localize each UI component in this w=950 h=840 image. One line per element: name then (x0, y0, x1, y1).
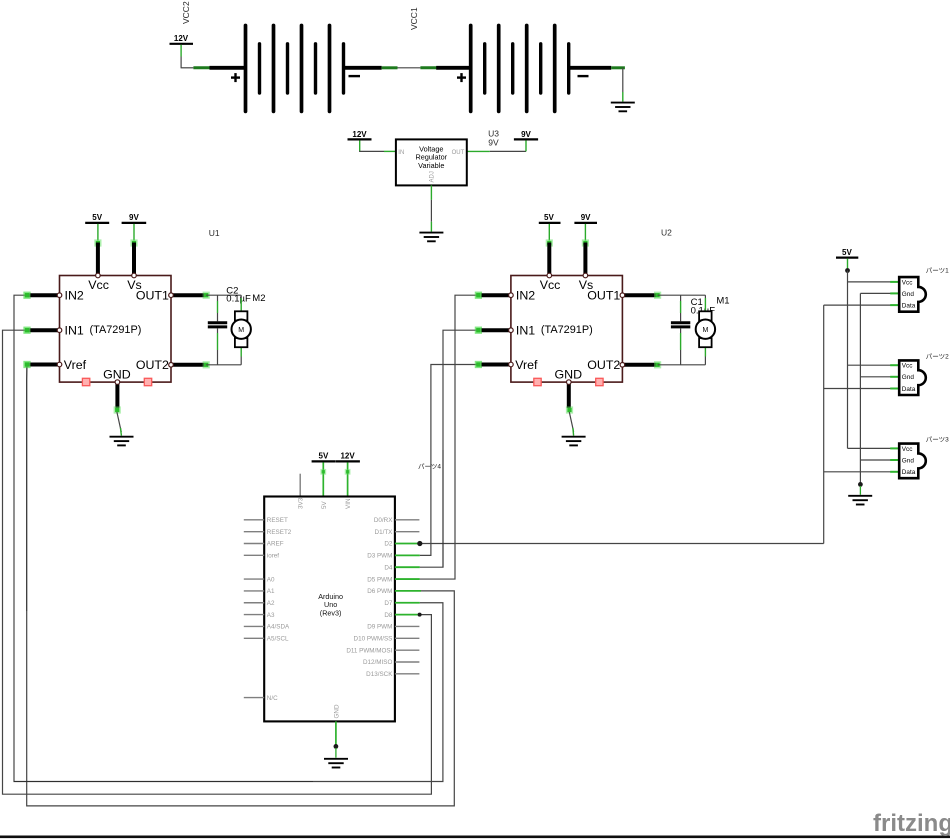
svg-text:Vcc: Vcc (902, 446, 913, 453)
junction dot (845, 268, 850, 273)
svg-text:Data: Data (902, 303, 916, 310)
pin stubs (890, 448, 899, 471)
svg-text:VIN: VIN (345, 498, 352, 509)
battery plates VCC2 (246, 26, 344, 112)
svg-text:U2: U2 (661, 228, 672, 238)
battery VCC1 (409, 7, 635, 111)
svg-text:A5/SCL: A5/SCL (267, 636, 289, 643)
svg-text:OUT: OUT (452, 150, 465, 156)
svg-text:IN2: IN2 (516, 289, 535, 303)
wire to parts1 Gnd (860, 292, 890, 294)
wire OUT2 bottom (658, 364, 706, 366)
pin circle Vs (132, 273, 137, 278)
wire OUT to 9V (467, 150, 490, 152)
svg-text:AREF: AREF (267, 541, 284, 548)
pin circle IN2 (509, 293, 514, 298)
wire + terminal (436, 66, 472, 70)
svg-text:Vref: Vref (64, 358, 87, 372)
wire U2 IN2 to D5 (420, 295, 479, 579)
wire 12V to IN (359, 140, 361, 147)
bottom page border (0, 836, 950, 839)
red square bus pin (534, 378, 541, 385)
svg-text:D3 PWM: D3 PWM (367, 553, 392, 560)
junction dot D2 (417, 541, 422, 546)
wire 9V to Vs (133, 224, 135, 241)
red square bus pin (144, 378, 151, 385)
pin circle Vref (509, 362, 514, 367)
svg-text:D13/SCK: D13/SCK (366, 671, 393, 678)
pin stub IN2 (23, 292, 30, 299)
pin circle OUT2 (169, 363, 174, 368)
svg-text:D11 PWM/MOSI: D11 PWM/MOSI (346, 647, 392, 654)
motor M2 (232, 295, 251, 365)
right gray pin stubs (395, 520, 420, 674)
svg-text:Variable: Variable (418, 161, 444, 170)
svg-text:9V: 9V (129, 213, 139, 222)
svg-text:Vcc: Vcc (902, 279, 913, 286)
svg-text:9V: 9V (581, 213, 591, 222)
svg-text:D6 PWM: D6 PWM (367, 588, 392, 595)
svg-text:5V: 5V (544, 213, 554, 222)
svg-text:ioref: ioref (267, 553, 279, 560)
wire 5V to Vcc (97, 224, 99, 241)
pin circle IN2 (57, 293, 62, 298)
svg-text:Vcc: Vcc (902, 363, 913, 370)
wire U1 IN1 to D8 (3, 330, 432, 794)
pin stub GND (115, 383, 119, 408)
junction dot gnd (858, 482, 863, 487)
capacitor C1 (671, 295, 690, 365)
wire overlap darkening D4 (442, 450, 444, 567)
wire overlap darkening bottom (14, 781, 313, 783)
wire Data bus vertical (823, 305, 825, 543)
wire 5V bus vertical (847, 271, 849, 449)
junction dot (334, 744, 339, 749)
svg-text:M1: M1 (716, 295, 729, 306)
svg-text:A4/SDA: A4/SDA (267, 624, 290, 631)
pin circle Vcc (96, 273, 101, 278)
pin stub IN1 (23, 327, 30, 334)
pin stub IN1 (475, 327, 482, 334)
svg-text:RESET2: RESET2 (267, 529, 292, 536)
body (899, 360, 926, 395)
svg-text:GND: GND (333, 704, 340, 718)
svg-text:5V: 5V (319, 452, 329, 461)
svg-text:パーツ4: パーツ4 (418, 462, 441, 470)
pin circle OUT1 (620, 293, 625, 298)
regulator box U3 (396, 139, 467, 185)
svg-text:パーツ1: パーツ1 (926, 267, 949, 275)
svg-text:M: M (702, 327, 708, 334)
wire to parts3 Gnd (860, 459, 890, 461)
svg-text:12V: 12V (340, 452, 355, 461)
svg-text:3V3: 3V3 (298, 497, 305, 509)
svg-text:0.1µF: 0.1µF (226, 294, 251, 305)
svg-text:12V: 12V (174, 34, 189, 43)
ground (110, 437, 134, 446)
pin stub Vs (130, 239, 137, 246)
wire green segment (193, 66, 210, 69)
wire 5V to Vcc (548, 224, 550, 241)
power flag 5V (right) (824, 248, 891, 544)
svg-text:D0/RX: D0/RX (374, 517, 393, 524)
body (899, 444, 926, 479)
voltage regulator U3 (348, 129, 539, 242)
plus sign (231, 73, 240, 82)
ground (611, 103, 635, 112)
svg-text:N/C: N/C (267, 695, 278, 702)
motor M1 (696, 295, 715, 365)
wire green segment (420, 66, 437, 69)
pin stub Vcc (546, 239, 553, 246)
svg-text:fritzing: fritzing (873, 810, 950, 837)
wire VIN pin (347, 462, 349, 496)
svg-text:9V: 9V (488, 138, 499, 148)
wire between batteries (398, 67, 421, 69)
wire - terminal (570, 66, 611, 70)
pin stub IN2 (475, 292, 482, 299)
ground (324, 759, 348, 768)
wire D2 to parts Data bus (420, 543, 824, 545)
wire U1 IN2 to D7 (14, 295, 443, 781)
ground (848, 496, 872, 505)
svg-text:Vref: Vref (515, 358, 538, 372)
svg-text:RESET: RESET (267, 517, 288, 524)
wire OUT1 to C2/M2 (206, 294, 241, 296)
plus sign (457, 73, 466, 82)
pin circle Vs (583, 273, 588, 278)
svg-text:IN1: IN1 (65, 324, 84, 338)
svg-text:(TA7291P): (TA7291P) (541, 324, 593, 336)
minus sign (578, 75, 589, 77)
wire to parts3 Vcc (848, 447, 891, 449)
svg-text:D9 PWM: D9 PWM (367, 624, 392, 631)
battery VCC2 (170, 1, 421, 111)
ground (419, 233, 443, 242)
svg-text:Vcc: Vcc (540, 278, 561, 292)
wire ADJ to ground (430, 185, 432, 200)
pin circle GND (115, 380, 120, 385)
wire GND to ground (569, 412, 573, 432)
svg-text:IN1: IN1 (516, 324, 535, 338)
svg-text:Gnd: Gnd (902, 374, 915, 381)
wire 9V to Vs (584, 224, 586, 241)
svg-text:D5 PWM: D5 PWM (367, 576, 392, 583)
pin stub 3V3 (299, 474, 301, 497)
svg-text:D10 PWM/SS: D10 PWM/SS (354, 636, 393, 643)
wire U1 Vref to D6 (27, 365, 455, 806)
pin stub GND (567, 383, 571, 408)
op-amp U2 TA7291P (475, 213, 730, 445)
svg-text:OUT2: OUT2 (136, 358, 169, 372)
capacitor C2 (208, 295, 227, 365)
pin circle IN1 (57, 328, 62, 333)
svg-text:D4: D4 (384, 564, 393, 571)
pin stub Vs (582, 239, 589, 246)
right pin labels (346, 517, 393, 678)
svg-text:A0: A0 (267, 576, 275, 583)
svg-text:IN: IN (398, 150, 404, 156)
wire to parts3 Data (824, 471, 891, 473)
node blobs over wires (23, 292, 30, 299)
svg-text:OUT2: OUT2 (587, 358, 620, 372)
pin stub OUT1 (170, 293, 204, 297)
pin stub Vref (475, 361, 482, 368)
svg-text:IN2: IN2 (65, 289, 84, 303)
junction dot D8 (418, 613, 422, 617)
svg-text:パーツ2: パーツ2 (926, 353, 949, 361)
svg-text:Gnd: Gnd (902, 457, 915, 464)
svg-text:D2: D2 (384, 541, 393, 548)
svg-text:A2: A2 (267, 600, 275, 607)
svg-text:5V: 5V (842, 248, 852, 257)
wire overlap darkening (26, 367, 28, 611)
pin stubs (890, 282, 899, 305)
pin circle IN1 (509, 328, 514, 333)
wire + terminal (210, 66, 248, 70)
chip body U2 (511, 276, 623, 383)
pin circle Vcc (547, 273, 552, 278)
pin stub Vcc (94, 239, 101, 246)
red square bus pin (596, 378, 603, 385)
wire down to ground (622, 68, 624, 92)
chip body U1 (60, 276, 172, 383)
wire OUT2 bottom (206, 364, 241, 366)
svg-text:Data: Data (902, 386, 916, 393)
pin stub OUT1 (621, 293, 655, 297)
wire 12V flag to battery + (180, 45, 182, 57)
svg-text:U1: U1 (209, 228, 220, 238)
pin stubs (890, 365, 899, 388)
svg-text:(TA7291P): (TA7291P) (90, 324, 142, 336)
battery plates VCC1 (471, 26, 569, 112)
connector parts1 (890, 267, 949, 312)
svg-text:9V: 9V (521, 130, 531, 139)
svg-text:OUT1: OUT1 (587, 289, 620, 303)
red square bus pin (82, 378, 89, 385)
svg-text:5V: 5V (321, 500, 328, 509)
svg-text:Data: Data (902, 469, 916, 476)
wire 5V down (847, 259, 849, 271)
wire to parts2 Data (824, 388, 891, 390)
svg-text:A3: A3 (267, 612, 275, 619)
op-amp U1 TA7291P (23, 213, 265, 445)
left pin labels (267, 517, 292, 702)
arduino body (264, 497, 395, 722)
svg-text:(Rev3): (Rev3) (320, 609, 342, 618)
pin circle OUT2 (620, 363, 625, 368)
wire 5V pin (322, 462, 324, 496)
wire GND to ground (117, 412, 121, 432)
minus sign (349, 75, 361, 77)
wire U2 IN1 to D4 (420, 330, 479, 567)
pin stub OUT2 (621, 363, 655, 367)
svg-text:A1: A1 (267, 588, 275, 595)
wire green segment (611, 66, 625, 69)
right green pin stubs D2-D8 (395, 544, 421, 615)
pin circle GND (567, 380, 572, 385)
svg-text:D12/MISO: D12/MISO (363, 659, 392, 666)
wire U2 Vref to D3 (420, 365, 479, 556)
svg-text:パーツ3: パーツ3 (926, 436, 949, 444)
wire to parts2 Vcc (848, 364, 891, 366)
svg-text:D1/TX: D1/TX (375, 529, 394, 536)
Arduino Uno (Rev3) (244, 452, 421, 768)
svg-text:5V: 5V (92, 213, 102, 222)
pin circle OUT1 (169, 293, 174, 298)
svg-text:D7: D7 (384, 600, 393, 607)
svg-text:ADJ: ADJ (430, 171, 436, 182)
svg-text:Gnd: Gnd (902, 291, 915, 298)
pin stub Vref (23, 361, 30, 368)
wire - terminal (345, 66, 382, 70)
left pin stubs (244, 520, 264, 698)
wire to parts1 Vcc (848, 281, 891, 283)
body (899, 277, 926, 312)
wire OUT1 to C1/M1 (658, 294, 706, 296)
pin circle Vref (57, 362, 62, 367)
ground (562, 437, 586, 446)
pin stub OUT2 (170, 363, 204, 367)
wire Gnd bus vertical (859, 293, 861, 484)
svg-text:OUT1: OUT1 (136, 289, 169, 303)
wire to parts1 Data (824, 304, 891, 306)
svg-text:12V: 12V (352, 130, 367, 139)
connector parts2 (890, 353, 949, 395)
svg-text:D8: D8 (384, 612, 393, 619)
wire GND pin down (335, 721, 337, 746)
wire to parts2 Gnd (860, 376, 890, 378)
wire green segment (382, 66, 398, 69)
connector parts3 (890, 436, 949, 479)
svg-text:M: M (238, 327, 244, 334)
svg-text:VCC2: VCC2 (181, 1, 191, 24)
svg-text:VCC1: VCC1 (409, 7, 419, 30)
svg-text:M2: M2 (252, 293, 265, 304)
svg-text:Vcc: Vcc (88, 278, 109, 292)
